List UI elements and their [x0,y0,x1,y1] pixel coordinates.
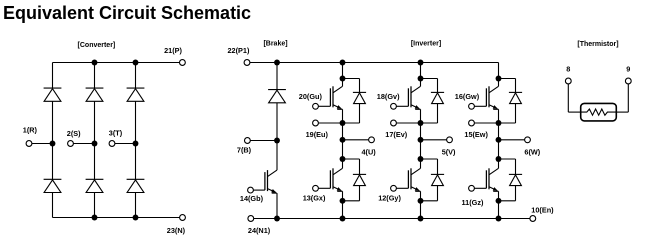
transistor leg V upper IGBT [420,79,422,87]
wire gate lead 20(Gu) [318,105,330,107]
wire thermistor right [627,84,629,112]
diode leg V lower freewheel [431,173,444,175]
terminal 11(Gz) [469,185,475,191]
wire output lead 4(U) [343,139,369,141]
wire brake diode to B node [276,103,278,141]
node leg U output junction [340,137,346,143]
svg-text:15(Ew): 15(Ew) [464,130,488,139]
wire converter leg 1 lower [52,193,54,218]
wire converter leg 3 upper [135,63,137,89]
terminal 17(Ev) [391,120,397,126]
diode leg W lower freewheel [509,173,522,175]
wire converter leg 2 upper [94,63,96,89]
resistor element thermistor [581,109,616,115]
svg-text:24(N1): 24(N1) [248,226,271,235]
node leg U emitter upper [340,120,346,126]
svg-text:[Converter]: [Converter] [78,42,116,49]
wire 22(P1) lead [250,62,277,64]
wire converter P rail [53,62,180,64]
junction converter N rail leg3 [133,215,139,221]
transistor brake IGBT [276,141,278,171]
svg-text:21(P): 21(P) [164,46,182,55]
node leg W upper split [496,76,502,82]
diode leg U upper freewheel [353,91,366,93]
wire brake upper [276,63,278,90]
wire leg V emitter to output [420,123,422,140]
wire leg V upper diode branch down [437,79,439,93]
wire gate lead 12(Gy) [396,187,408,189]
svg-text:2(S): 2(S) [67,129,81,138]
svg-text:18(Gv): 18(Gv) [377,92,400,101]
svg-text:16(Gw): 16(Gw) [455,92,480,101]
wire input 3(T) [115,143,136,145]
wire leg U lower diode branch top [343,158,360,160]
diode converter top leg 3 [127,87,145,89]
svg-text:1(R): 1(R) [23,126,38,135]
junction P1 rail leg U [340,60,346,66]
wire sense lead 19(Eu) [318,122,342,124]
wire output lead 5(V) [421,139,447,141]
node leg V emitter upper [418,120,424,126]
svg-text:7(B): 7(B) [237,145,252,154]
wire N1 rail [277,218,530,220]
wire 7(B) lead [250,140,277,142]
terminal 3(T) [109,141,115,147]
wire input 1(R) [32,143,53,145]
wire leg V lower diode branch top [421,158,438,160]
node leg W lower split [496,156,502,162]
wire leg W emitter to N rail [498,201,500,219]
wire converter N rail [53,217,180,219]
wire converter leg 3 mid-lower [135,144,137,180]
wire leg U emitter to output [342,123,344,140]
junction N rail leg U [340,216,346,222]
wire converter leg 3 lower [135,193,137,218]
terminal 5(V) [447,137,453,143]
junction N rail leg W [496,216,502,222]
node leg V lower split [418,156,424,162]
terminal 19(Eu) [313,120,319,126]
node leg V output junction [418,137,424,143]
wire leg W upper diode branch down [515,79,517,93]
wire leg V output to lower split [420,140,422,159]
wire leg U lower diode branch return [359,185,361,201]
transistor leg U upper IGBT [342,79,344,87]
wire converter leg 1 mid-lower [52,144,54,180]
wire leg V lower diode branch down [437,159,439,174]
svg-text:10(En): 10(En) [531,206,554,215]
terminal 16(Gw) [469,103,475,109]
wire leg U emitter to N rail [342,201,344,219]
wire converter leg 2 mid-lower [94,144,96,180]
svg-text:12(Gy): 12(Gy) [378,193,401,202]
junction P1 rail leg V [418,60,424,66]
terminal 12(Gy) [391,185,397,191]
terminal 21(P) [180,60,186,66]
wire leg W lower diode branch top [499,158,516,160]
wire gate lead 18(Gv) [396,105,408,107]
wire leg V upper diode branch top [421,78,438,80]
node converter input 2 junction [92,141,98,147]
diode brake D7 [268,89,286,91]
wire converter leg 3 mid-upper [135,101,137,143]
node leg W output junction [496,137,502,143]
wire leg U output to lower split [342,140,344,159]
wire leg V lower diode branch return [437,185,439,201]
svg-text:[Inverter]: [Inverter] [411,40,441,47]
terminal 10(En) [530,216,536,222]
wire gate lead 14(Gb) [253,189,265,191]
diode converter bottom leg 3 [127,178,145,180]
diode converter top leg 2 [86,87,104,89]
svg-text:9: 9 [626,65,630,74]
svg-text:4(U): 4(U) [362,147,377,156]
terminal 6(W) [525,137,531,143]
terminal 23(N) [180,215,186,221]
terminal 8 [565,78,571,84]
wire 24(N1) lead [254,218,277,220]
terminal 9 [625,78,631,84]
node leg U lower split [340,156,346,162]
wire leg V upper diode branch return [437,103,439,123]
svg-text:22(P1): 22(P1) [228,46,250,55]
junction brake N1 [274,216,280,222]
junction converter N rail leg2 [92,215,98,221]
svg-text:5(V): 5(V) [442,147,456,156]
wire leg W emitter to output [498,123,500,140]
junction N rail leg V [418,216,424,222]
wire converter leg 2 lower [94,193,96,218]
transistor leg V lower IGBT [420,159,422,168]
diode converter bottom leg 2 [86,178,104,180]
wire leg W upper diode branch top [499,78,516,80]
svg-text:13(Gx): 13(Gx) [303,193,326,202]
wire leg U rail to upper split [342,63,344,79]
wire leg U lower diode branch down [359,159,361,174]
node converter input 1 junction [50,141,56,147]
transistor leg W lower IGBT [498,159,500,168]
wire sense lead 17(Ev) [396,122,420,124]
svg-text:6(W): 6(W) [524,147,540,156]
junction converter P rail leg3 [133,60,139,66]
svg-text:17(Ev): 17(Ev) [385,130,407,139]
junction brake P1 [274,60,280,66]
transistor leg W upper IGBT [498,79,500,87]
svg-text:23(N): 23(N) [167,226,186,235]
wire converter leg 1 mid-upper [52,101,54,143]
diode leg V upper freewheel [431,91,444,93]
svg-text:19(Eu): 19(Eu) [306,130,329,139]
diode converter bottom leg 1 [44,178,62,180]
wire gate lead 11(Gz) [474,187,486,189]
svg-text:[Brake]: [Brake] [263,40,287,47]
terminal 15(Ew) [469,120,475,126]
wire output lead 6(W) [499,139,525,141]
svg-text:3(T): 3(T) [109,129,123,138]
terminal 14(Gb) [248,187,254,193]
node leg W emitter lower [496,198,502,204]
wire P1 rail brake to inverter [277,62,499,64]
wire leg W output to lower split [498,140,500,159]
transistor leg U lower IGBT [342,159,344,168]
terminal 2(S) [68,141,74,147]
terminal 18(Gv) [391,103,397,109]
terminal 4(U) [369,137,375,143]
wire gate lead 13(Gx) [318,187,330,189]
wire converter leg 1 upper [52,63,54,89]
terminal 22(P1) [244,60,250,66]
node leg V upper split [418,76,424,82]
node converter input 3 junction [133,141,139,147]
wire leg U upper diode branch top [343,78,360,80]
wire sense lead 15(Ew) [474,122,498,124]
terminal 13(Gx) [313,185,319,191]
terminal 24(N1) [248,216,254,222]
wire input 2(S) [73,143,94,145]
diode leg W upper freewheel [509,91,522,93]
wire leg U upper diode branch return [359,103,361,123]
junction node B [274,138,280,144]
node leg V emitter lower [418,198,424,204]
node leg U emitter lower [340,198,346,204]
thermistor body [581,103,617,121]
terminal 7(B) [245,138,251,144]
svg-text:[Thermistor]: [Thermistor] [577,41,618,48]
svg-text:8: 8 [566,65,570,74]
wire leg U upper diode branch down [359,79,361,93]
wire leg W rail to upper split [498,63,500,79]
terminal 1(R) [26,141,32,147]
terminal 20(Gu) [313,103,319,109]
node leg W emitter upper [496,120,502,126]
wire leg V rail to upper split [420,63,422,79]
wire gate lead 16(Gw) [474,105,486,107]
junction converter P rail leg2 [92,60,98,66]
wire leg V emitter to N rail [420,201,422,219]
svg-text:Equivalent Circuit Schematic: Equivalent Circuit Schematic [3,3,251,23]
svg-text:14(Gb): 14(Gb) [240,194,264,203]
wire leg W lower diode branch return [515,185,517,201]
wire leg W lower diode branch down [515,159,517,174]
diode leg U lower freewheel [353,173,366,175]
wire thermistor left [567,84,569,112]
wire leg W upper diode branch return [515,103,517,123]
node leg U upper split [340,76,346,82]
diode converter top leg 1 [44,87,62,89]
svg-text:11(Gz): 11(Gz) [462,198,484,207]
svg-text:20(Gu): 20(Gu) [299,92,323,101]
wire converter leg 2 mid-upper [94,101,96,143]
